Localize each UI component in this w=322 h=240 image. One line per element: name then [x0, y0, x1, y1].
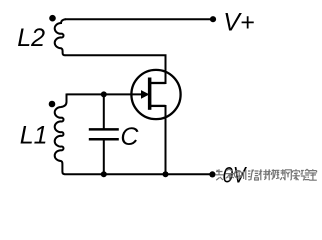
junction dot C bottom / rail	[101, 171, 107, 177]
transistor Q1 (JFET in circle)	[131, 70, 180, 119]
wm char wei	[244, 170, 251, 181]
wire gate (L1 top / C top to gate arrow)	[67, 93, 143, 95]
wm char shi	[292, 169, 300, 180]
inductor L1	[55, 94, 67, 175]
svg-text:C: C	[120, 123, 139, 151]
capacitor C	[89, 94, 119, 174]
wm char wang	[285, 170, 291, 180]
polarity dot of L1	[49, 101, 56, 108]
wm char xin	[251, 170, 259, 181]
wm char tiao	[225, 169, 234, 180]
wm char shi2	[309, 169, 317, 180]
wm char te	[259, 169, 269, 180]
node V+ terminal dot	[210, 16, 216, 22]
polarity dot of L2	[49, 15, 56, 22]
junction dot source / rail	[163, 171, 169, 177]
inductor L2	[55, 19, 66, 55]
wire source to bottom rail	[165, 105, 167, 174]
wire bottom rail	[65, 173, 213, 175]
wire L2 bottom to drain	[65, 55, 166, 72]
watermark (gray CJK-style marks, drawn as paths)	[215, 169, 317, 180]
wire top rail L2 to V+	[65, 18, 214, 20]
wm char wu	[267, 169, 276, 180]
wm char lian	[276, 169, 285, 180]
wm char yan	[301, 169, 310, 180]
svg-text:V+: V+	[223, 8, 254, 36]
junction dot gate / C top	[101, 91, 107, 97]
svg-text:L2: L2	[17, 24, 45, 52]
node 0V terminal dot	[209, 171, 215, 177]
wm char tou	[215, 169, 223, 180]
svg-text:L1: L1	[20, 121, 48, 149]
wm char at	[234, 170, 242, 178]
